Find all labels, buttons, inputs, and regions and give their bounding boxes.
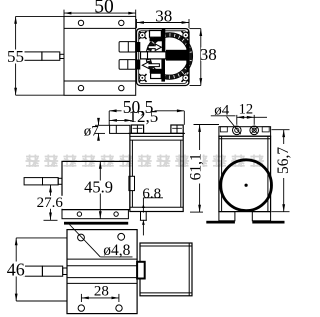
svg-text:12: 12 (239, 101, 254, 117)
svg-text:28: 28 (94, 283, 109, 299)
svg-text:61,1: 61,1 (188, 153, 205, 180)
svg-text:12,5: 12,5 (129, 107, 159, 126)
svg-text:27.6: 27.6 (37, 195, 64, 211)
svg-text:38: 38 (200, 45, 217, 64)
svg-text:38: 38 (155, 7, 172, 26)
svg-text:45.9: 45.9 (84, 178, 113, 197)
svg-text:55: 55 (7, 47, 24, 66)
svg-text:46: 46 (7, 259, 25, 279)
svg-text:56,7: 56,7 (275, 147, 292, 174)
svg-text:6.8: 6.8 (142, 186, 161, 202)
svg-text:50: 50 (94, 0, 114, 18)
svg-text:ø4,8: ø4,8 (103, 242, 130, 259)
svg-text:ø7: ø7 (84, 123, 100, 139)
